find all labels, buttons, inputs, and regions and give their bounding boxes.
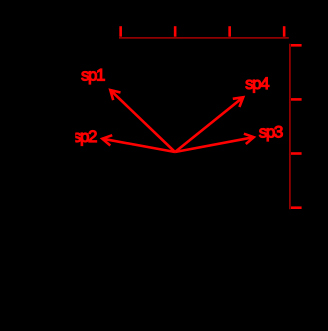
- right axis tick 4: [291, 206, 302, 209]
- svg-text:sp4: sp4: [245, 74, 269, 93]
- arrow sp1 head: [110, 90, 120, 100]
- svg-text:sp2: sp2: [73, 127, 97, 146]
- arrow sp4 head: [233, 97, 243, 107]
- arrow sp1 shaft: [110, 90, 175, 152]
- top axis tick 3: [228, 26, 231, 37]
- svg-text:sp1: sp1: [81, 66, 105, 85]
- arrow sp3 head: [244, 134, 254, 144]
- arrow sp2 head: [102, 135, 112, 145]
- arrow sp4 shaft: [175, 97, 243, 152]
- top axis tick 1: [119, 26, 122, 37]
- top axis tick 4: [283, 26, 286, 37]
- arrow sp3 shaft: [175, 137, 254, 152]
- arrow sp2 shaft: [102, 139, 175, 152]
- top axis tick 2: [174, 26, 177, 37]
- right axis line (red, side 4): [289, 44, 291, 210]
- svg-text:sp3: sp3: [259, 123, 283, 142]
- right axis tick 1: [291, 44, 302, 47]
- right axis tick 3: [291, 152, 302, 155]
- top axis line (red, side 3): [119, 37, 289, 39]
- right axis tick 2: [291, 98, 302, 101]
